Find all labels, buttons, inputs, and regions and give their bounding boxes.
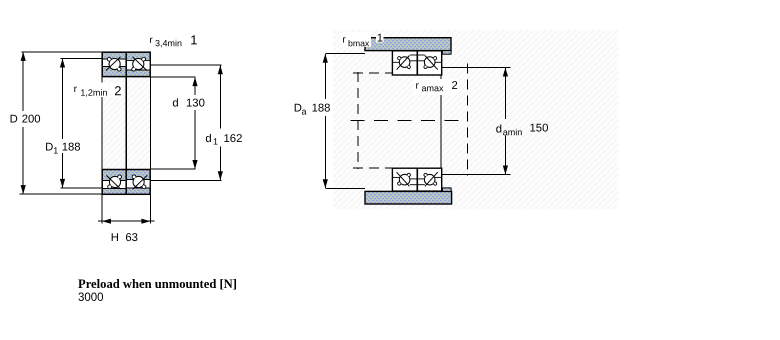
svg-text:a: a <box>301 107 306 117</box>
svg-text:2: 2 <box>451 80 457 92</box>
svg-text:1: 1 <box>53 146 58 156</box>
svg-text:63: 63 <box>125 232 138 244</box>
svg-text:bmax: bmax <box>348 38 370 48</box>
svg-text:3,4min: 3,4min <box>155 38 182 48</box>
svg-text:1,2min: 1,2min <box>80 88 107 98</box>
svg-text:1: 1 <box>190 32 197 47</box>
svg-text:H: H <box>111 232 119 244</box>
svg-text:r: r <box>149 35 153 46</box>
svg-text:D: D <box>45 142 53 154</box>
svg-text:1: 1 <box>377 33 383 45</box>
svg-text:150: 150 <box>529 123 548 135</box>
svg-text:188: 188 <box>62 142 81 154</box>
svg-text:amax: amax <box>421 83 444 93</box>
svg-text:130: 130 <box>186 98 205 110</box>
svg-text:2: 2 <box>114 83 121 98</box>
svg-text:200: 200 <box>22 114 41 126</box>
svg-text:d: d <box>172 98 178 110</box>
svg-text:1: 1 <box>213 137 218 147</box>
svg-text:188: 188 <box>312 103 331 115</box>
svg-text:d: d <box>496 124 502 136</box>
svg-text:d: d <box>205 133 211 145</box>
svg-text:amin: amin <box>503 127 523 137</box>
svg-text:D: D <box>10 114 18 126</box>
svg-text:162: 162 <box>223 133 242 145</box>
